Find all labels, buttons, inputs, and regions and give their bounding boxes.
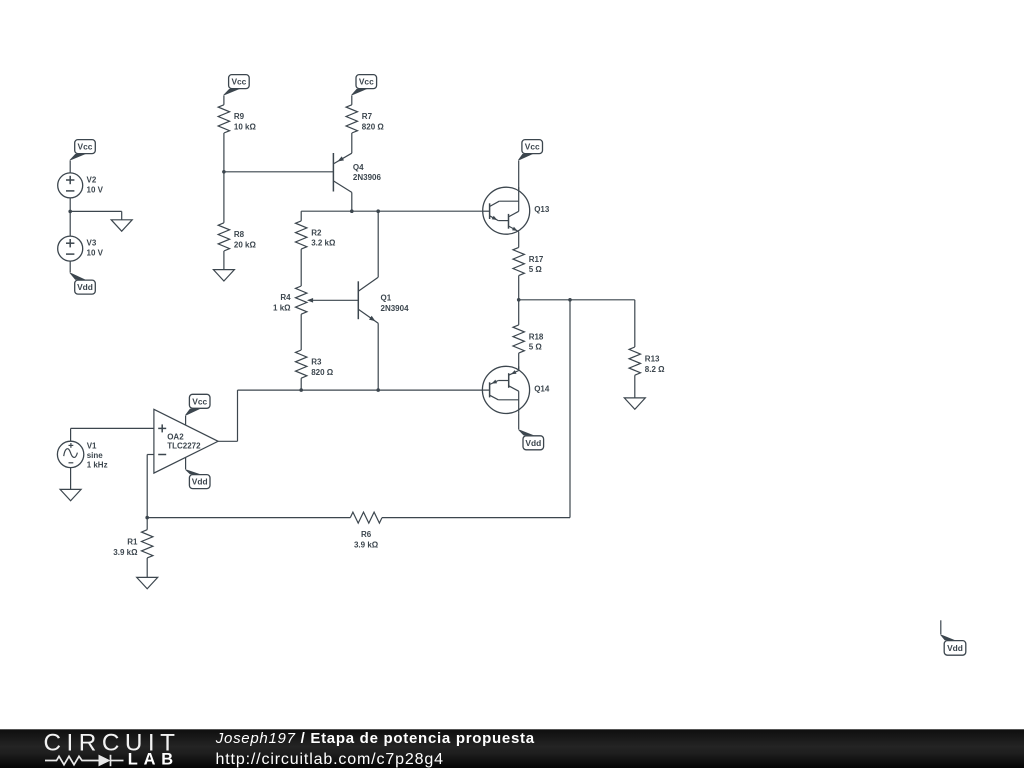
wire bbox=[146, 558, 148, 578]
wire bbox=[351, 133, 353, 153]
potentiometer R4 bbox=[296, 286, 307, 314]
node junction bbox=[376, 209, 380, 213]
flag tail bbox=[223, 89, 239, 95]
svg-text:Vdd: Vdd bbox=[77, 282, 93, 292]
wire inverting input bbox=[147, 454, 154, 456]
flag tail bbox=[70, 154, 86, 160]
svg-text:V2: V2 bbox=[87, 175, 97, 184]
voltage source V1 sine bbox=[57, 441, 83, 467]
svg-text:Vdd: Vdd bbox=[525, 438, 541, 448]
transistor Q13 darlington bbox=[483, 187, 530, 234]
op-amp OA2 TLC2272 bbox=[154, 409, 218, 473]
R4 wiper arrow bbox=[310, 299, 358, 301]
svg-text:V1: V1 bbox=[87, 441, 97, 450]
svg-text:V3: V3 bbox=[87, 239, 97, 248]
resistor R1 bbox=[142, 530, 153, 558]
transistor Q1 2N3904 bbox=[357, 281, 359, 319]
net flag Vcc (R7) bbox=[356, 75, 377, 89]
net flag Vdd (Q14) bbox=[523, 436, 544, 450]
svg-text:R7: R7 bbox=[362, 112, 373, 121]
wire bbox=[300, 211, 302, 221]
wire Q14 base bbox=[482, 389, 489, 391]
svg-text:8.2 Ω: 8.2 Ω bbox=[645, 365, 665, 374]
resistor R8 bbox=[218, 223, 229, 251]
svg-text:Vdd: Vdd bbox=[947, 643, 963, 653]
ground bbox=[624, 398, 645, 409]
resistor R9 bbox=[218, 105, 229, 133]
wire bbox=[146, 518, 148, 530]
flag tail bbox=[351, 89, 367, 95]
wire bbox=[69, 160, 71, 173]
svg-text:R3: R3 bbox=[311, 358, 322, 367]
svg-text:820 Ω: 820 Ω bbox=[362, 123, 385, 132]
wire bottom rail bbox=[238, 389, 483, 391]
net flag Vdd (op-amp) bbox=[189, 475, 210, 489]
wire output bbox=[218, 440, 237, 442]
flag tail bbox=[185, 470, 201, 475]
svg-text:Q4: Q4 bbox=[353, 163, 364, 172]
svg-text:2N3906: 2N3906 bbox=[353, 173, 382, 182]
svg-text:1 kΩ: 1 kΩ bbox=[273, 303, 291, 312]
svg-text:R1: R1 bbox=[127, 538, 138, 547]
svg-text:5 Ω: 5 Ω bbox=[529, 265, 543, 274]
net flag Vdd (stray) bbox=[944, 641, 966, 656]
node junction bbox=[350, 209, 354, 213]
svg-text:R6: R6 bbox=[361, 530, 372, 539]
resistor R17 bbox=[513, 247, 524, 275]
ground bbox=[111, 220, 132, 231]
svg-text:820 Ω: 820 Ω bbox=[311, 368, 334, 377]
wire bbox=[223, 133, 225, 223]
wire stray bbox=[940, 620, 942, 634]
svg-text:TLC2272: TLC2272 bbox=[167, 442, 201, 451]
logo resistor+diode glyph bbox=[45, 755, 124, 766]
wire bbox=[300, 314, 302, 350]
svg-text:10 V: 10 V bbox=[87, 249, 104, 258]
svg-text:20 kΩ: 20 kΩ bbox=[234, 241, 257, 250]
wire bbox=[634, 300, 636, 347]
transistor Q4 2N3906 bbox=[332, 153, 334, 192]
node junction bbox=[222, 170, 226, 174]
ground bbox=[213, 270, 234, 281]
net flag Vcc (op-amp) bbox=[189, 394, 210, 408]
wire bbox=[223, 95, 225, 104]
svg-text:OA2: OA2 bbox=[167, 432, 184, 441]
wire bbox=[185, 458, 187, 470]
wire bbox=[518, 353, 520, 370]
wire bbox=[518, 413, 520, 429]
svg-text:Vcc: Vcc bbox=[359, 77, 374, 87]
node junction bbox=[376, 388, 380, 392]
svg-text:Q1: Q1 bbox=[381, 294, 392, 303]
flag tail bbox=[185, 409, 201, 416]
wire to Q4 base bbox=[224, 171, 334, 173]
svg-text:5 Ω: 5 Ω bbox=[529, 343, 543, 352]
resistor R6 bbox=[350, 512, 382, 523]
wire bbox=[185, 416, 187, 426]
wire bbox=[300, 249, 302, 286]
resistor R7 bbox=[346, 105, 357, 133]
svg-text:10 kΩ: 10 kΩ bbox=[234, 123, 257, 132]
flag tail bbox=[70, 273, 86, 280]
voltage source V3 bbox=[58, 236, 83, 261]
node junction bbox=[68, 210, 72, 214]
wire noninverting input bbox=[71, 427, 154, 429]
wire Q13 base bbox=[483, 210, 490, 212]
wire bbox=[634, 375, 636, 398]
node junction bbox=[145, 516, 149, 520]
wire bbox=[518, 160, 520, 201]
svg-text:Joseph197 / Etapa de potencia: Joseph197 / Etapa de potencia propuesta bbox=[215, 730, 535, 747]
resistor R2 bbox=[296, 221, 307, 249]
net flag Vcc (R9) bbox=[229, 75, 250, 89]
net flag Vdd (V3) bbox=[75, 280, 96, 294]
svg-text:R18: R18 bbox=[529, 332, 544, 341]
svg-text:sine: sine bbox=[87, 451, 104, 460]
wire bbox=[69, 261, 71, 273]
wire bbox=[69, 198, 71, 236]
svg-text:3.9 kΩ: 3.9 kΩ bbox=[113, 548, 138, 557]
svg-text:http://circuitlab.com/c7p28g4: http://circuitlab.com/c7p28g4 bbox=[216, 751, 444, 768]
wire bbox=[300, 378, 302, 390]
wire bbox=[518, 276, 520, 325]
svg-text:10 V: 10 V bbox=[87, 185, 104, 194]
resistor R3 bbox=[296, 350, 307, 378]
flag tail bbox=[518, 430, 534, 436]
voltage source V2 bbox=[58, 173, 83, 198]
svg-text:Vdd: Vdd bbox=[192, 477, 208, 487]
svg-text:R8: R8 bbox=[234, 230, 245, 239]
node junction bbox=[517, 298, 521, 302]
wire Q1 emitter bbox=[377, 323, 379, 390]
flag tail bbox=[518, 154, 533, 160]
net flag Vcc (Q13) bbox=[522, 140, 543, 154]
svg-text:R17: R17 bbox=[529, 255, 544, 264]
svg-text:3.2 kΩ: 3.2 kΩ bbox=[311, 239, 336, 248]
wire bbox=[70, 468, 72, 490]
svg-text:1 kHz: 1 kHz bbox=[87, 460, 108, 469]
svg-text:R9: R9 bbox=[234, 112, 245, 121]
svg-text:R4: R4 bbox=[280, 293, 291, 302]
svg-text:LAB: LAB bbox=[128, 751, 179, 768]
wire bbox=[70, 428, 72, 441]
flag tail bbox=[940, 635, 955, 641]
svg-text:Q13: Q13 bbox=[534, 205, 550, 214]
wire feedback bbox=[382, 517, 570, 519]
wire Q1 collector bbox=[377, 211, 379, 277]
wire bbox=[351, 95, 353, 104]
svg-text:Vcc: Vcc bbox=[525, 142, 540, 152]
wire bbox=[351, 192, 353, 211]
wire mid rail bbox=[301, 210, 483, 212]
svg-text:Q14: Q14 bbox=[534, 385, 550, 394]
wire to ground bbox=[70, 210, 122, 212]
node junction bbox=[299, 388, 303, 392]
wire bbox=[147, 517, 350, 519]
net flag Vcc (V2) bbox=[75, 140, 96, 154]
wire bbox=[223, 251, 225, 270]
resistor R18 bbox=[513, 325, 524, 353]
resistor R13 bbox=[629, 347, 640, 375]
footer bar bbox=[0, 729, 1024, 768]
transistor Q14 darlington bbox=[482, 366, 529, 413]
svg-text:R2: R2 bbox=[311, 228, 322, 237]
node junction bbox=[568, 298, 572, 302]
svg-text:R13: R13 bbox=[645, 355, 660, 364]
ground bbox=[137, 577, 158, 588]
svg-text:Vcc: Vcc bbox=[192, 396, 207, 406]
svg-text:2N3904: 2N3904 bbox=[381, 304, 410, 313]
svg-text:3.9 kΩ: 3.9 kΩ bbox=[354, 540, 379, 549]
ground bbox=[60, 489, 81, 500]
svg-text:Vcc: Vcc bbox=[231, 77, 246, 87]
svg-text:Vcc: Vcc bbox=[78, 142, 93, 152]
wire output rail bbox=[519, 299, 635, 301]
